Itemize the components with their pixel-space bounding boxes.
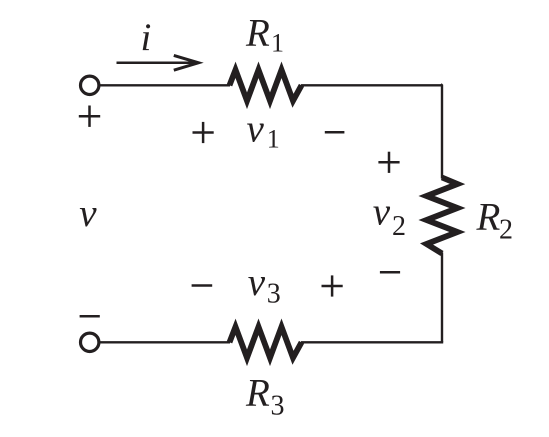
svg-text:1: 1: [267, 125, 280, 154]
svg-text:v: v: [248, 261, 266, 304]
svg-text:3: 3: [271, 391, 285, 422]
svg-text:1: 1: [271, 29, 284, 58]
wire top-left segment: [99, 84, 230, 86]
label R1: [245, 11, 284, 57]
svg-text:i: i: [141, 16, 152, 59]
svg-text:v: v: [79, 192, 97, 235]
svg-text:R: R: [476, 196, 501, 239]
svg-text:R: R: [245, 11, 270, 54]
polarity + v1 left: [193, 122, 214, 143]
wire right lower segment: [441, 253, 443, 343]
wire bottom-right segment: [301, 341, 442, 342]
polarity + v2 top: [378, 152, 399, 173]
svg-text:2: 2: [392, 211, 406, 242]
svg-text:3: 3: [267, 279, 281, 310]
current arrow i: [117, 55, 199, 70]
svg-text:v: v: [247, 107, 265, 150]
resistor R3: [230, 327, 302, 358]
label R2: [476, 196, 514, 246]
polarity + v3 right: [322, 275, 343, 296]
wire right upper segment: [441, 84, 442, 178]
wire bottom-left segment: [99, 341, 230, 343]
resistor R1: [230, 70, 302, 101]
label v3: [248, 261, 281, 310]
wire top-right segment: [301, 84, 442, 86]
polarity − v1 right: [325, 131, 345, 134]
terminal top (open circle): [81, 76, 99, 94]
terminal bottom (open circle): [81, 333, 99, 351]
resistor R2: [427, 178, 458, 254]
svg-text:R: R: [245, 372, 270, 415]
label v2: [373, 191, 406, 243]
svg-text:v: v: [373, 191, 391, 234]
polarity − v2 bottom: [380, 271, 400, 274]
polarity − source bottom: [80, 315, 100, 318]
svg-text:2: 2: [499, 215, 513, 246]
polarity − v3 left: [192, 284, 213, 287]
label v1: [247, 107, 280, 153]
label R3: [245, 372, 285, 422]
polarity + source top: [79, 106, 100, 127]
